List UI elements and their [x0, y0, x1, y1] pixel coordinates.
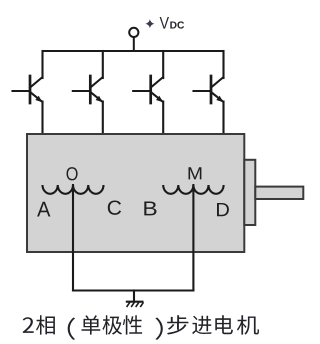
caption text: 2相（单极性）步进电机: [23, 315, 259, 340]
bottom common rail wire: [73, 289, 193, 291]
transistor Q3: [133, 51, 163, 103]
terminal label C: [108, 201, 121, 215]
winding phase B-D coil: [163, 185, 223, 194]
ground stub wire: [133, 291, 135, 302]
terminal label B: [144, 202, 156, 216]
VDC terminal wire: [133, 38, 135, 51]
node label M: [189, 167, 202, 179]
motor body: [27, 134, 244, 252]
wire from Q2 emitter to winding: [102, 102, 104, 186]
transistor Q4: [194, 51, 224, 103]
center tap wire O: [72, 185, 74, 291]
label V: [160, 17, 169, 29]
terminal label A: [37, 202, 50, 217]
transistor Q3 emitter arrow: [156, 96, 163, 102]
terminal label D: [217, 203, 229, 216]
transistor Q1: [13, 51, 43, 103]
center tap wire M: [192, 185, 194, 291]
motor shaft: [255, 187, 303, 199]
transistor Q4 emitter arrow: [216, 96, 223, 102]
wire from Q1 emitter to winding: [41, 102, 43, 186]
wire from Q4 emitter to winding: [222, 102, 224, 186]
transistor Q2 emitter arrow: [96, 96, 103, 102]
motor flange: [244, 160, 255, 225]
transistor Q1 emitter arrow: [35, 96, 42, 102]
polarity star +: [146, 19, 155, 28]
winding phase A-C coil: [43, 185, 104, 194]
VDC terminal circle: [129, 28, 138, 37]
transistor Q2: [73, 51, 103, 103]
label DC subscript: [170, 21, 184, 28]
wire from Q3 emitter to winding: [162, 102, 164, 186]
node label O: [67, 167, 78, 180]
ground symbol: [126, 302, 144, 307]
power rail wire: [43, 50, 224, 52]
